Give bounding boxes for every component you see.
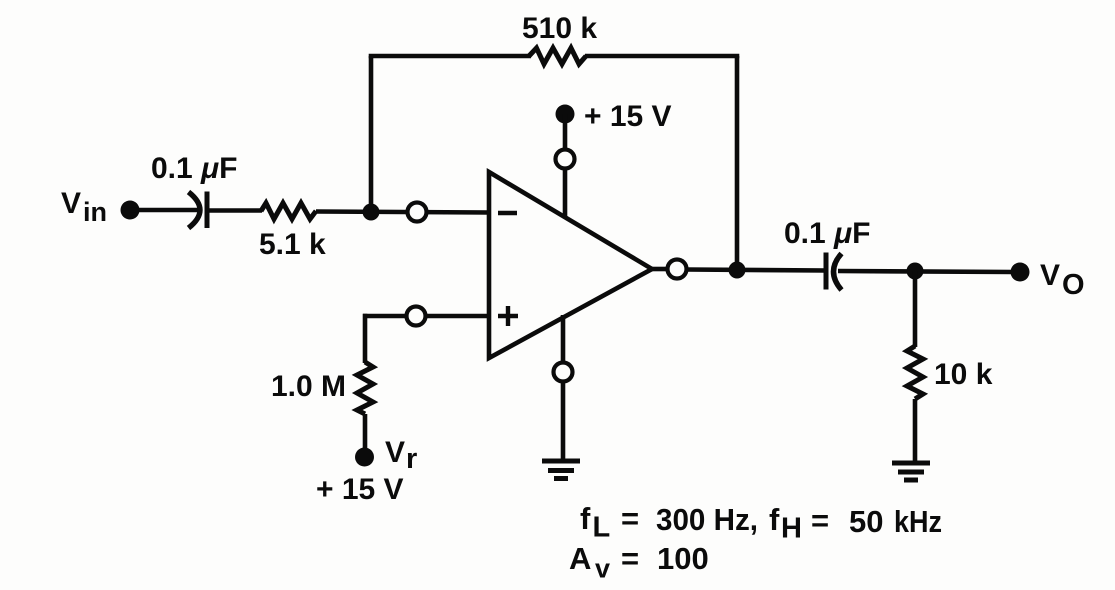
wire op-amp bottom edge to V- circle: [561, 315, 566, 364]
svg-text:100: 100: [657, 541, 709, 576]
svg-text:V: V: [1040, 259, 1060, 292]
wire C2 to Vo dot: [838, 271, 1013, 272]
ground symbol below R4: [892, 463, 930, 480]
wire R4 to ground: [913, 399, 918, 463]
wire R3 to Vr dot: [363, 414, 368, 450]
wire V+ dot to open circle: [563, 114, 568, 150]
capacitor C2 value label 0.1 uF: [784, 217, 870, 250]
wire non-inverting input horizontal: [363, 314, 489, 319]
node Vin terminal dot: [121, 201, 140, 220]
annotation Av = 100: [569, 541, 709, 584]
svg-text:5.1 k: 5.1 k: [259, 228, 326, 261]
svg-text:=: =: [811, 503, 829, 538]
node Vr label: [385, 436, 417, 475]
svg-text:+ 15 V: + 15 V: [316, 473, 404, 506]
svg-text:V: V: [385, 436, 405, 469]
wire Vin dot to C1: [130, 208, 198, 213]
resistor R1 5.1k zigzag: [261, 203, 316, 219]
svg-text:kHz: kHz: [894, 504, 942, 539]
node junction dot feedback takeoff: [729, 262, 746, 279]
open circle on non-inverting input lead: [407, 307, 426, 326]
capacitor C1 value label 0.1 uF: [151, 152, 237, 185]
svg-text:in: in: [83, 197, 107, 227]
node junction dot at inverting input / feedback: [363, 204, 380, 221]
capacitor C1 0.1uF curved plate: [189, 192, 201, 228]
svg-text:=: =: [621, 541, 639, 576]
open circle on inverting input lead: [408, 203, 427, 222]
resistor R3 1.0M zigzag vertical: [357, 362, 373, 414]
annotation fL = 300 Hz, fH = 50 kHz: [580, 501, 942, 545]
svg-text:1.0 M: 1.0 M: [271, 370, 346, 403]
wire feedback top left horizontal: [369, 54, 531, 59]
supply V+ label +15 V: [584, 100, 672, 133]
wire 10k junction down to R4: [913, 271, 918, 347]
wire V+ circle to op-amp top edge: [563, 168, 568, 218]
node Vo terminal dot: [1011, 263, 1030, 282]
svg-text:A: A: [569, 541, 591, 576]
svg-text:0.1 μF: 0.1 μF: [784, 217, 870, 250]
op-amp non-inverting input plus sign: [498, 306, 518, 326]
wire V- circle to ground: [561, 381, 566, 461]
svg-text:50: 50: [849, 504, 883, 539]
supply V+ terminal dot: [556, 105, 575, 124]
resistor R3 value label 1.0 M: [271, 370, 346, 403]
svg-text:r: r: [406, 443, 417, 475]
wire feedback vertical right leg: [735, 56, 740, 270]
wire output circle to C2: [686, 270, 826, 271]
wire feedback top right horizontal: [585, 54, 739, 59]
svg-text:10 k: 10 k: [934, 358, 993, 391]
svg-text:f: f: [580, 501, 591, 536]
svg-text:v: v: [595, 554, 610, 584]
capacitor C1 0.1uF straight plate: [205, 192, 210, 229]
node Vo label: [1040, 259, 1085, 301]
resistor R2 510k zigzag: [529, 48, 586, 64]
resistor R4 value label 10 k: [934, 358, 993, 391]
svg-text:+ 15 V: + 15 V: [584, 100, 672, 133]
wire op-amp output to open circle: [652, 267, 668, 272]
wire feedback vertical left leg: [369, 56, 374, 212]
wire C1 to R1: [207, 208, 262, 213]
node Vr terminal dot: [355, 448, 374, 467]
svg-text:f: f: [769, 502, 780, 537]
open circle on V+ lead: [556, 150, 575, 169]
node junction dot at 10k takeoff: [907, 263, 924, 280]
svg-text:L: L: [593, 512, 611, 544]
op-amp U1 triangle: [489, 172, 652, 358]
svg-text:V: V: [61, 187, 81, 220]
node Vin terminal label: [61, 187, 107, 227]
resistor R1 value label 5.1 k: [259, 228, 326, 261]
svg-text:300 Hz,: 300 Hz,: [656, 502, 758, 537]
capacitor C2 0.1uF curved plate: [834, 254, 842, 291]
wire R1 to op-amp inverting input: [316, 212, 489, 213]
open circle on output lead: [668, 260, 687, 279]
resistor R2 value label 510 k: [522, 12, 597, 45]
svg-text:0.1 μF: 0.1 μF: [151, 152, 237, 185]
svg-text:510 k: 510 k: [522, 12, 597, 45]
open circle on V- lead: [554, 363, 573, 382]
wire from non-inverting node down to R3: [363, 314, 368, 363]
svg-text:=: =: [621, 501, 639, 536]
svg-text:O: O: [1062, 269, 1085, 301]
svg-text:H: H: [781, 513, 802, 545]
op-amp inverting input minus sign: [498, 211, 517, 215]
ground symbol below op-amp: [542, 461, 580, 479]
capacitor C2 0.1uF straight plate: [824, 253, 829, 290]
resistor R4 10k zigzag vertical: [907, 346, 923, 399]
supply label +15V at Vr: [316, 473, 404, 506]
